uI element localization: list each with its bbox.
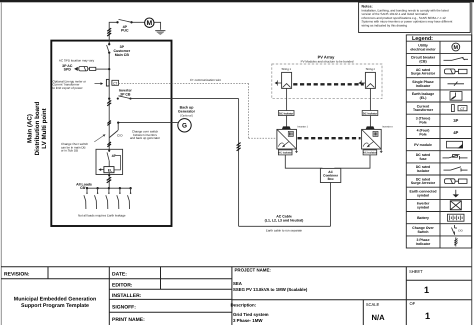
title block table [1,267,472,325]
3 phase indicator on riser [237,143,241,151]
AC isolator box 1 [278,150,292,155]
svg-text:1: 1 [424,285,429,295]
svg-text:SIGNOFF:: SIGNOFF: [112,305,136,311]
svg-text:Distribution board: Distribution board [34,101,41,155]
earth arrow string n [358,80,365,85]
inverter n earth stub [380,149,383,153]
3 phase indicator below inverter tap [107,100,111,105]
svg-text:Not all loads requires Earth l: Not all loads requires Earth leakage [78,213,126,217]
title block labels [4,268,430,324]
load breaker 5 [128,187,132,209]
inverter U1 [277,125,309,149]
svg-text:Inverter 1: Inverter 1 [297,125,308,128]
svg-text:C/O: C/O [458,229,463,232]
svg-text:SEA: SEA [233,281,242,286]
svg-text:AC Isolator: AC Isolator [363,152,377,155]
ground at meter [155,31,165,35]
wire: AC cable run [239,225,331,227]
load breaker 1 [84,187,88,209]
3 phase indicator on riser [107,28,111,36]
svg-text:Battery: Battery [417,216,429,220]
load breaker 2 [95,187,99,209]
svg-text:Earth cable to run separate: Earth cable to run separate [266,229,303,233]
current transformer on main bus [106,79,118,86]
legend symbol: PV module [447,141,463,148]
legend symbol: earth connected [453,190,459,198]
svg-text:EDITOR:: EDITOR: [112,283,133,289]
wire: string n to DC isolator [369,88,371,110]
3 phase indicator above changeover [107,121,111,126]
svg-text:CT communication wire: CT communication wire [190,78,222,82]
svg-text:M: M [146,20,152,27]
svg-text:DC Isolator: DC Isolator [279,112,293,115]
wire: inverter feed horizontal [131,98,239,100]
svg-text:fuse: fuse [419,157,426,161]
svg-text:wiring as indicated by this dr: wiring as indicated by this drawing [362,24,408,28]
svg-text:Box: Box [328,177,334,181]
svg-text:Municipal Embedded Generation: Municipal Embedded Generation [14,297,96,303]
breaker 4P PUC [116,19,132,32]
generator G circle [178,119,191,132]
load breaker 3 [106,187,110,209]
DC input tab inverter 1 [282,126,291,129]
note: optional energy meter [53,79,87,89]
svg-text:3P CB: 3P CB [120,93,131,97]
svg-text:Indicator: Indicator [416,242,431,246]
svg-text:Indicator: Indicator [416,84,431,88]
wire: inverter 1 to combiner [285,155,322,169]
svg-text:DC Isolator: DC Isolator [363,112,377,115]
svg-text:AC Isolator: AC Isolator [278,152,292,155]
svg-text:M: M [454,45,459,51]
svg-text:LV Multi point: LV Multi point [41,108,48,148]
svg-text:AC SPD location may vary: AC SPD location may vary [59,58,95,62]
svg-text:C/O: C/O [117,133,123,137]
svg-text:(L1, L2, L3 and Neutral): (L1, L2, L3 and Neutral) [265,219,304,223]
svg-text:G: G [182,123,187,130]
wire: inverter n to combiner [335,155,370,169]
legend symbol: DC fuse [443,154,468,159]
legend symbol: current transformer [452,105,468,112]
svg-text:4P: 4P [112,154,117,158]
DC isolator box 1 [278,111,294,116]
wire: SPD branch [96,68,109,70]
svg-text:and back up generator: and back up generator [130,136,160,140]
legend symbol: change over switch [452,225,463,235]
wire: main bus vertical [108,41,110,150]
AC isolator box n [363,150,377,155]
svg-text:DATE:: DATE: [112,272,127,278]
PV array bonded enclosure (dashed) [272,64,382,99]
notes box [359,2,471,32]
svg-text:PUC: PUC [121,29,129,33]
svg-text:Surge Arrestor: Surge Arrestor [411,181,436,185]
note: change over switch between inverters [130,130,160,140]
svg-text:PROJECT NAME:: PROJECT NAME: [235,268,272,273]
svg-text:(Optional): (Optional) [180,113,193,117]
PV module string 1 [281,67,291,88]
DC isolator box n [362,111,378,116]
DC input tab inverter n [366,126,375,129]
wire: CT communication (dashed) [119,83,277,138]
svg-text:Main CB: Main CB [115,53,130,57]
leader arrow to CT [95,82,104,85]
legend symbol: single phase indicator [448,82,465,86]
svg-text:(EL): (EL) [420,96,427,100]
svg-text:Isolator: Isolator [417,169,430,173]
svg-text:Inverter n: Inverter n [382,125,393,128]
svg-text:String n: String n [366,67,376,71]
legend symbol: DC surge arrestor [445,179,468,184]
load breaker 4 [117,187,121,209]
wire: DC isolator to inverter n [369,116,371,130]
svg-text:Description:: Description: [231,303,257,308]
svg-text:symbol: symbol [417,193,429,197]
heavy dashed link between strings [293,83,364,85]
wire: string 1 to DC isolator [286,88,288,110]
svg-text:REVISION:: REVISION: [4,272,30,278]
svg-text:symbol: symbol [417,205,429,209]
legend symbol: DC isolator [444,167,468,172]
svg-text:SHEET: SHEET [409,269,423,274]
wire: combiner downlead [330,183,332,227]
changeover switch C/O [94,130,123,142]
svg-text:Pole: Pole [419,132,426,136]
legend symbol: AC surge arrestor [445,69,468,74]
wire: loads bus bar [87,187,131,189]
svg-text:CT: CT [460,107,465,111]
svg-text:Main (AC): Main (AC) [27,114,34,143]
PV module string n [365,67,375,88]
inverter 1 earth stub [295,149,298,153]
legend symbol: battery [448,214,465,221]
svg-text:OF: OF [410,301,416,306]
heavy dashed link between inverters [298,137,361,139]
svg-text:Switch: Switch [417,230,428,234]
svg-text:Pole: Pole [419,120,426,124]
svg-text:N/A: N/A [372,313,386,322]
legend symbol: circuit breaker [444,57,469,60]
wire: DC isolator to inverter 1 [286,116,288,130]
breaker 3P customer main CB [107,43,131,57]
svg-text:PRINT NAME:: PRINT NAME: [112,317,145,323]
legend labels [410,44,437,246]
surge arrestor 3P AC SPD [62,64,110,72]
wire: top riser and utility feed [109,22,160,40]
AC combiner box [320,168,340,182]
legend symbol: inverter [450,201,461,210]
svg-text:Grid Tied system: Grid Tied system [233,312,269,317]
sub DB enclosure [96,149,123,174]
svg-text:SCALE: SCALE [366,302,380,307]
backup generator label [178,106,196,114]
wire: generator branch [117,121,178,130]
3 phase indicator below changeover [107,142,111,147]
breaker inverter 3P CB [108,89,239,100]
legend table [406,35,471,248]
svg-text:or in Sub DB: or in Sub DB [61,149,78,153]
svg-text:Surge Arrestor: Surge Arrestor [411,72,436,76]
svg-text:SPD: SPD [64,68,72,72]
earth leakage unit EL [98,167,114,173]
svg-text:INSTALLER:: INSTALLER: [112,293,142,299]
svg-text:SSEG PV 13.8kVA to 1MW (Scalab: SSEG PV 13.8kVA to 1MW (Scalable) [233,287,308,292]
inverter Un [362,125,394,149]
legend symbol: 3 phase indicator [454,237,457,246]
svg-text:CT: CT [113,81,117,85]
legend symbol: earth leakage [450,92,462,101]
svg-text:Legend:: Legend: [412,36,433,42]
svg-text:Transformer: Transformer [413,108,434,112]
svg-text:PV Modules and structure to be: PV Modules and structure to be bonded [301,60,354,64]
svg-text:PV module: PV module [414,143,432,147]
svg-text:Support Program Template: Support Program Template [21,303,89,309]
3 phase indicator below sub DB [107,177,112,183]
earth arrow string 1 [275,80,282,85]
svg-text:3 Phase- 1MW: 3 Phase- 1MW [233,318,263,323]
legend symbol: utility meter [452,43,460,51]
svg-text:1: 1 [425,311,430,321]
svg-text:(CB): (CB) [419,60,426,64]
note: change over location [61,142,88,152]
svg-text:4P: 4P [453,130,458,135]
svg-text:3P: 3P [453,118,458,123]
svg-text:String 1: String 1 [281,67,291,71]
wire: sub DB outlet [108,173,110,187]
svg-text:electrical meter: electrical meter [410,47,436,51]
main AC distribution board enclosure [51,41,171,226]
board title (rotated) [27,101,49,155]
utility meter M [145,18,154,27]
breaker 4P in sub DB [107,149,120,170]
svg-text:to limit export of power: to limit export of power [53,86,83,90]
wire: riser to inverter CB [238,99,240,227]
